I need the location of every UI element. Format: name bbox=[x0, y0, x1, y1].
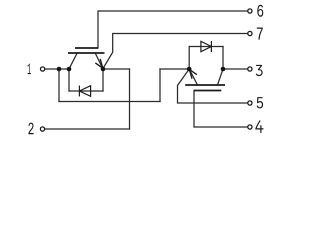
label 6 bbox=[257, 5, 263, 17]
label 7 bbox=[257, 28, 263, 40]
junction node E1 bbox=[101, 67, 106, 72]
wire aux emitter Q2 to terminal 5 bbox=[178, 69, 248, 103]
circuit schematic: IGBT half-bridge module bbox=[0, 0, 289, 149]
wire diode D1 horizontal bbox=[69, 90, 103, 92]
wire riser to top emitter wire bbox=[159, 69, 161, 102]
transistor Q2 collector leg bbox=[218, 69, 224, 85]
terminal circle 4 bbox=[248, 125, 252, 129]
junction node C2 bbox=[67, 67, 72, 72]
transistor Q1 emitter arrow bbox=[95, 59, 103, 68]
wire gate lead Q2 to terminal 4 bbox=[194, 91, 248, 128]
wire terminal 1 to node C2 bbox=[45, 68, 69, 70]
label 2 bbox=[28, 123, 33, 135]
label 4 bbox=[256, 121, 263, 133]
wire terminal 3 bbox=[223, 68, 248, 70]
terminal circle 7 bbox=[248, 31, 252, 35]
terminal circle 2 bbox=[40, 127, 44, 131]
junction node E2 top bbox=[187, 67, 192, 72]
transistor Q2 channel bar bbox=[185, 84, 225, 86]
terminal circle 3 bbox=[248, 67, 252, 71]
wire emitter node riser to diode D2 bbox=[188, 47, 190, 70]
wire aux drop from node A1 bbox=[58, 69, 60, 102]
transistor Q1 collector leg bbox=[69, 53, 77, 69]
terminal circle 5 bbox=[248, 101, 252, 105]
wire aux bottom run to right emitter bbox=[59, 101, 160, 103]
wire to emitter node of top IGBT bbox=[160, 68, 189, 70]
label 5 bbox=[257, 97, 263, 108]
wire diode D2 horizontal bbox=[189, 46, 223, 48]
transistor Q1 channel bar bbox=[68, 52, 105, 54]
diode D1 triangle bbox=[79, 86, 90, 97]
diode D1 cathode bar bbox=[78, 86, 80, 97]
label 1 bbox=[28, 64, 31, 75]
diode D2 triangle bbox=[201, 41, 212, 51]
diode D2 cathode bar bbox=[210, 41, 212, 52]
transistor Q2 emitter arrow bbox=[189, 69, 197, 78]
terminal circle 1 bbox=[41, 67, 45, 71]
wire terminal 2 bbox=[45, 128, 130, 130]
transistor Q1 emitter leg bbox=[95, 53, 103, 69]
junction node C1 top bbox=[221, 67, 226, 72]
transistor Q2 gate bar bbox=[194, 90, 221, 92]
junction node A1 bbox=[57, 67, 62, 72]
transistor Q2 emitter leg bbox=[189, 69, 197, 85]
label 3 bbox=[256, 65, 262, 75]
wire node E1 to corner bbox=[103, 68, 130, 70]
transistor Q1 gate bar bbox=[75, 47, 98, 49]
terminal circle 6 bbox=[248, 9, 252, 13]
wire terminal 2 riser bbox=[129, 69, 131, 129]
wire drop node C2 to diode D1 bbox=[68, 69, 70, 91]
wire collector riser of D2 bbox=[222, 47, 224, 70]
wire gate lead Q1 to terminal 6 bbox=[98, 11, 248, 48]
wire drop node E1 to diode D1 bbox=[102, 69, 104, 91]
wire aux emitter Q1 to terminal 7 bbox=[103, 34, 248, 69]
